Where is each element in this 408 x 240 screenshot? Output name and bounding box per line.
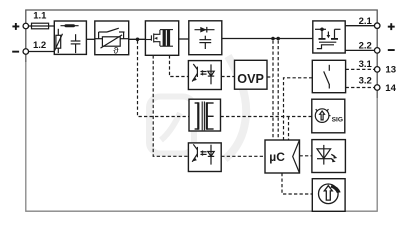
svg-text:3.2: 3.2 — [359, 75, 372, 86]
svg-text:OVP: OVP — [237, 72, 264, 86]
svg-text:SIG: SIG — [332, 117, 343, 124]
svg-text:13: 13 — [385, 65, 396, 76]
svg-text:2.2: 2.2 — [359, 41, 372, 52]
svg-text:1.2: 1.2 — [33, 40, 46, 51]
svg-text:3.1: 3.1 — [359, 59, 373, 70]
svg-text:µC: µC — [269, 150, 285, 164]
svg-text:ϑ: ϑ — [113, 46, 119, 57]
svg-text:14: 14 — [385, 83, 396, 94]
svg-text:2.1: 2.1 — [359, 16, 373, 27]
svg-text:1.1: 1.1 — [33, 11, 47, 22]
